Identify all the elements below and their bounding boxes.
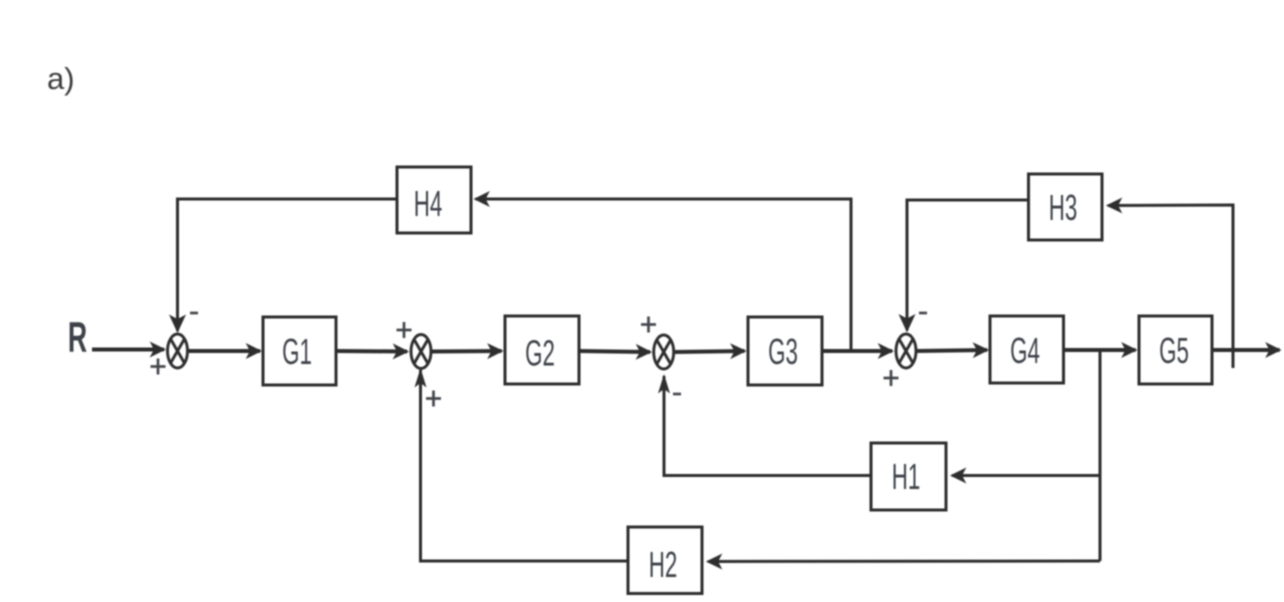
block G3	[748, 317, 822, 385]
block G4	[990, 316, 1064, 383]
block H2	[628, 527, 702, 594]
wire node G4out down	[1099, 351, 1102, 561]
block H4	[397, 167, 471, 233]
block G1	[263, 317, 336, 385]
wire G5 to output	[1212, 348, 1280, 352]
sign minus S3 bottom	[673, 393, 681, 396]
wire S1 to G1	[188, 349, 260, 353]
svg-text:H4: H4	[414, 185, 443, 225]
svg-text:H3: H3	[1049, 189, 1078, 229]
svg-text:G1: G1	[282, 333, 312, 373]
svg-text:G4: G4	[1010, 332, 1040, 372]
sign plus S2 bottom	[426, 397, 441, 400]
svg-text:G3: G3	[768, 333, 798, 373]
wire G1 to S2	[336, 349, 407, 354]
wire branch to H1	[952, 474, 1100, 477]
wire node G3out up to H4 level	[476, 199, 852, 351]
svg-text:G2: G2	[525, 334, 555, 374]
svg-text:R: R	[68, 313, 87, 361]
sign plus S1	[151, 365, 166, 368]
summing junction S2	[411, 335, 431, 369]
wire S3 to G3	[675, 351, 745, 352]
svg-text:G5: G5	[1159, 332, 1189, 372]
wire H4 out to S1 top	[178, 199, 398, 331]
wire G3 to S4	[822, 349, 892, 353]
sign plus S2 top	[397, 329, 412, 332]
svg-text:H1: H1	[892, 458, 921, 498]
wire H1 out to S3 bottom	[664, 376, 871, 476]
summing junction S4	[896, 334, 916, 368]
sign plus S4 bottom	[884, 377, 899, 380]
sign minus S1	[190, 312, 198, 315]
svg-text:a): a)	[47, 61, 75, 96]
block G2	[505, 316, 579, 384]
wire H3 out to S4 top	[907, 200, 1029, 331]
sign plus S3 top	[641, 323, 656, 326]
summing junction S1	[168, 334, 188, 368]
wire S4 to G4	[917, 350, 987, 351]
sign minus S4 top	[919, 312, 927, 315]
wire to H2	[708, 560, 1100, 564]
wire S2 to G2	[432, 349, 502, 354]
svg-text:H2: H2	[649, 546, 678, 586]
block G5	[1139, 316, 1212, 384]
block H3	[1029, 174, 1103, 240]
summing junction S3	[654, 335, 674, 369]
wire R to S1	[92, 348, 164, 352]
wire node G5out up to H3 level	[1108, 205, 1233, 368]
wire H2 out to S2 bottom	[421, 370, 629, 561]
wire G4 to G5	[1063, 348, 1136, 352]
wire G2 to S3	[579, 351, 650, 352]
block H1	[871, 443, 946, 510]
